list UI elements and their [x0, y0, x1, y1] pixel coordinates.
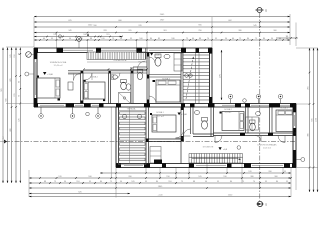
dimension line top-right short	[276, 37, 298, 39]
svg-text:590: 590	[93, 25, 97, 27]
unit A right wall	[209, 48, 211, 104]
svg-text:88: 88	[90, 38, 93, 40]
unit B bottom wall columns	[116, 163, 121, 168]
door arc bedroom4	[176, 130, 184, 138]
section marker circle S bottom	[257, 201, 262, 206]
svg-text:60: 60	[43, 38, 46, 40]
wall bathroom B1	[190, 107, 192, 134]
partition bath-wc A	[130, 67, 132, 104]
svg-text:24,6 m2: 24,6 m2	[263, 148, 272, 150]
bed 5	[222, 112, 244, 131]
svg-text:90: 90	[225, 38, 228, 40]
svg-text:545: 545	[253, 25, 257, 27]
svg-text:370: 370	[138, 25, 142, 27]
svg-text:180: 180	[171, 38, 175, 40]
ticks top line 6	[39, 39, 41, 41]
partition bath B1 right	[210, 107, 212, 137]
wall bedroom4 bottom	[149, 138, 182, 140]
svg-text:70: 70	[207, 38, 210, 40]
sink A	[164, 54, 170, 58]
unit B left wall	[115, 107, 117, 168]
bidet A	[126, 84, 131, 90]
dimension line left 2	[7, 48, 9, 184]
dimension line top total 1	[34, 16, 290, 18]
marker circle steps	[237, 146, 241, 150]
svg-text:115: 115	[106, 34, 110, 36]
svg-text:160: 160	[83, 34, 87, 36]
svg-text:80: 80	[263, 38, 266, 40]
bed 3	[156, 80, 180, 102]
svg-text:95: 95	[130, 38, 133, 40]
terrace pergola slats	[119, 111, 147, 165]
centerline horizontal section	[5, 141, 296, 143]
dimension line top 4	[34, 32, 290, 34]
svg-text:60: 60	[192, 38, 195, 40]
svg-text:SOBA 2: SOBA 2	[90, 76, 99, 79]
window markers above unit B	[230, 99, 232, 104]
svg-text:75: 75	[112, 38, 115, 40]
corridor wall A	[68, 70, 147, 72]
dimension line left 3	[11, 48, 13, 184]
dimension line bottom 2	[29, 177, 291, 179]
svg-text:88: 88	[199, 38, 202, 40]
ticks top line 3	[115, 26, 117, 28]
svg-text:1040: 1040	[88, 25, 93, 27]
dimension line stairwell	[221, 50, 223, 100]
window marker circle above wall left	[77, 37, 82, 42]
svg-text:70: 70	[59, 38, 62, 40]
svg-text:905: 905	[198, 25, 202, 27]
ticks top line 2	[146, 21, 148, 23]
svg-text:120: 120	[101, 38, 105, 40]
svg-text:300: 300	[273, 30, 277, 32]
extension lines to bottom dims	[28, 170, 30, 197]
centerline vertical S-S	[259, 13, 261, 201]
svg-text:90: 90	[271, 38, 274, 40]
ticks left block	[20, 53, 22, 55]
dimension line left 1	[2, 48, 4, 184]
svg-text:90: 90	[120, 38, 123, 40]
grid bubble C left wall	[26, 52, 32, 58]
svg-text:TERASA: TERASA	[127, 108, 136, 111]
dimension line bottom 4	[29, 187, 291, 189]
partition bedroom5 right	[245, 107, 247, 133]
sink B2	[256, 112, 261, 116]
window markers below unit A	[40, 107, 42, 114]
dimension line right 2	[313, 48, 315, 192]
svg-text:1130: 1130	[315, 117, 317, 122]
partition bedroom4 right	[180, 107, 182, 164]
svg-text:95: 95	[215, 38, 218, 40]
svg-text:662: 662	[228, 20, 232, 22]
wardrobe B mid	[246, 117, 258, 130]
door arc bedroom6	[278, 136, 285, 143]
ticks top line 5	[46, 36, 48, 38]
ticks right block	[309, 72, 311, 74]
wall bedrooms B bottom	[214, 132, 297, 134]
partition terrace right	[145, 107, 147, 164]
door arc bedroom3	[149, 96, 156, 103]
svg-text:HODNIK: HODNIK	[96, 59, 105, 61]
svg-text:+1,00: +1,00	[157, 195, 163, 197]
bed 1	[37, 78, 61, 98]
svg-text:S: S	[265, 203, 267, 207]
ticks bottom line 3	[39, 182, 41, 184]
middle wall windows	[40, 104, 64, 106]
svg-text:10,2 m2: 10,2 m2	[156, 116, 165, 118]
sink bath1 A	[112, 75, 117, 79]
dimension line left 4	[15, 48, 17, 184]
svg-text:349: 349	[68, 30, 72, 32]
svg-text:DNEVNI BORAVAK: DNEVNI BORAVAK	[257, 144, 277, 147]
svg-text:SPAVACA SOBA: SPAVACA SOBA	[50, 61, 67, 64]
sink B1	[194, 111, 199, 115]
svg-text:205: 205	[128, 30, 132, 32]
toilet B2	[250, 123, 256, 131]
svg-text:SOBA 3: SOBA 3	[280, 107, 289, 110]
marker circle left wall lower	[25, 72, 29, 76]
svg-text:635: 635	[311, 117, 313, 121]
terrace circles	[122, 114, 126, 118]
extra top marks	[59, 35, 62, 38]
bed 2	[84, 82, 106, 99]
partition bedroom2-bath	[108, 73, 110, 104]
level marker B5 bedroom1	[43, 72, 46, 75]
svg-text:+1,00: +1,00	[181, 114, 187, 116]
bed 6	[276, 110, 293, 132]
dimension line top total 2	[34, 21, 290, 23]
svg-text:660: 660	[118, 20, 122, 22]
svg-text:+1,00: +1,00	[47, 74, 53, 76]
svg-text:361: 361	[163, 30, 167, 32]
svg-text:80: 80	[247, 38, 250, 40]
partition bedroom6 left	[269, 107, 271, 133]
staircase A circles	[185, 74, 189, 78]
svg-text:80: 80	[150, 38, 153, 40]
middle wall columns	[34, 103, 38, 107]
door arc bath1 A	[114, 73, 121, 80]
svg-text:75: 75	[186, 38, 189, 40]
staircase A treads	[183, 54, 210, 56]
wall bath3 bottom	[149, 74, 181, 76]
svg-text:75: 75	[255, 38, 258, 40]
dimension line top 3	[34, 26, 290, 28]
svg-text:100: 100	[139, 38, 143, 40]
svg-text:72: 72	[239, 38, 242, 40]
unit A left wall	[33, 48, 35, 107]
balcony railing hatch top	[87, 52, 146, 60]
dimension line corridor A	[84, 68, 147, 70]
shower A	[119, 93, 131, 104]
staircase A arrow	[186, 58, 193, 99]
section marker circle S top	[257, 8, 262, 13]
unit B bottom wall	[116, 163, 296, 165]
marker circle right of unit B	[301, 158, 305, 162]
wardrobe A	[174, 53, 182, 71]
staircase A stringer	[195, 53, 197, 104]
svg-text:290: 290	[198, 30, 202, 32]
corridor wall stub left	[68, 73, 81, 75]
door arc hall A entrance	[138, 61, 146, 69]
dimension line right 3	[317, 48, 319, 192]
dimension line top 6	[34, 39, 290, 41]
entrance door jambs top	[145, 48, 147, 59]
svg-text:9,8 m2: 9,8 m2	[225, 112, 232, 114]
wall bathroom3 A	[146, 53, 148, 104]
unit B right wall	[292, 104, 294, 167]
svg-text:565: 565	[1, 87, 3, 91]
svg-text:+0,5: +0,5	[223, 149, 228, 151]
svg-text:90: 90	[69, 38, 72, 40]
unit A top wall windows	[63, 49, 93, 51]
dimension line top 5 short	[34, 36, 122, 38]
ticks bottom line 4	[115, 187, 117, 189]
svg-text:KUPAONICA: KUPAONICA	[114, 59, 127, 62]
ticks top line 4	[56, 32, 58, 34]
staircase A left wall	[180, 53, 182, 104]
svg-text:SOBA 1: SOBA 1	[156, 111, 165, 114]
dimension line right 1	[309, 48, 311, 192]
svg-text:625: 625	[68, 20, 72, 22]
terrace center line	[129, 107, 131, 164]
svg-text:SOBA 3: SOBA 3	[162, 78, 171, 81]
toilet A	[155, 58, 161, 66]
dimension line bottom 5	[29, 193, 130, 195]
unit A top wall	[34, 47, 212, 49]
svg-text:WC: WC	[138, 62, 142, 64]
svg-text:120: 120	[53, 34, 57, 36]
svg-text:255: 255	[307, 85, 309, 89]
door arc bathroom B1	[184, 129, 191, 136]
ticks bottom line 1	[115, 172, 117, 174]
middle wall horizontal	[34, 103, 296, 105]
staircase B steps down	[189, 153, 243, 155]
svg-text:60: 60	[232, 38, 235, 40]
svg-text:1: 1	[2, 137, 4, 140]
bed 4	[152, 115, 176, 132]
svg-text:+1,00: +1,00	[154, 54, 160, 56]
wardrobe B4	[150, 147, 161, 164]
svg-text:275: 275	[219, 73, 221, 77]
svg-text:380: 380	[238, 30, 242, 32]
level marker steps	[219, 147, 222, 150]
svg-text:STUBISTE: STUBISTE	[203, 147, 214, 149]
door arc bath3 A	[149, 57, 155, 63]
unit A top wall columns	[34, 48, 38, 53]
door arc bedroom5	[215, 136, 222, 143]
svg-text:12,45 m2: 12,45 m2	[53, 65, 63, 67]
door arc bathroom B2	[255, 136, 261, 142]
svg-text:1947: 1947	[160, 20, 165, 22]
door arc bedroom1	[74, 74, 81, 81]
svg-text:380: 380	[307, 132, 309, 136]
dimension line bottom 1	[100, 172, 291, 174]
balcony arrow mark	[87, 33, 89, 36]
extension lines to left dims	[6, 46, 34, 48]
toilet B1	[202, 121, 208, 129]
extension lines to top dims	[33, 17, 35, 47]
section marker left	[4, 140, 7, 144]
dimension line left 5	[19, 48, 21, 184]
door arc bedroom2	[85, 73, 92, 80]
svg-text:85: 85	[158, 38, 161, 40]
extension lines to right dims	[296, 47, 318, 49]
svg-text:S: S	[265, 9, 267, 13]
dimension line bottom 6	[29, 196, 291, 198]
level marker bedroom4	[178, 113, 181, 116]
svg-text:95: 95	[51, 38, 54, 40]
toilet wc A	[137, 72, 142, 79]
svg-text:95: 95	[286, 36, 289, 38]
dimension line bottom 3	[29, 182, 291, 184]
level marker wc A	[150, 53, 153, 56]
ticks bottom line 2	[39, 177, 41, 179]
svg-text:283: 283	[103, 30, 107, 32]
svg-text:SOBA 2: SOBA 2	[224, 108, 233, 111]
svg-text:2465: 2465	[160, 14, 165, 16]
toilet bath1 A	[121, 82, 127, 90]
desk bedroom1	[68, 82, 73, 90]
unit B bottom wall windows	[124, 165, 143, 167]
partition bedroom1-2	[80, 73, 82, 104]
